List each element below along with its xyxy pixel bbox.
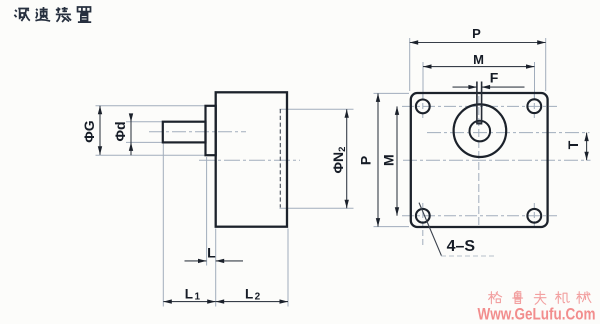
svg-text:Φd: Φd — [112, 121, 128, 141]
extension line N2 bottom — [280, 207, 354, 209]
extension line shaft bottom — [126, 141, 163, 143]
title 减速装置 — [14, 7, 91, 22]
svg-text:ΦG: ΦG — [81, 120, 97, 142]
svg-text:L: L — [207, 244, 216, 260]
bolt hole top-right — [527, 99, 541, 113]
bolt hole bottom-right — [527, 209, 541, 223]
hidden line spigot N2 — [279, 109, 281, 208]
svg-text:P: P — [472, 26, 481, 41]
dimension F — [453, 69, 525, 89]
svg-text:L2: L2 — [245, 286, 261, 302]
svg-text:M: M — [381, 154, 397, 166]
extension line boss bottom — [96, 154, 206, 156]
extension line boss top — [96, 105, 206, 107]
dimension M top — [423, 52, 535, 69]
centerline flange horizontal — [403, 159, 591, 161]
faint dash under 4-S — [441, 255, 495, 257]
centerline hole row bottom — [402, 215, 557, 217]
centerline body axis — [199, 159, 300, 161]
spigot circle — [454, 104, 507, 157]
dimension PhiG — [81, 106, 102, 155]
watermark 格鲁夫机械 — [489, 291, 591, 304]
centerline hole row top — [402, 105, 557, 107]
bolt hole bottom-left — [416, 209, 430, 223]
centerline hole column left — [422, 94, 424, 246]
dimension L1 — [163, 286, 215, 304]
svg-text:4–S: 4–S — [447, 238, 476, 255]
extension line M right — [534, 62, 536, 99]
centerline bore horizontal — [427, 132, 590, 134]
dimension L2 — [216, 286, 288, 304]
shaft — [163, 122, 206, 143]
extension line body left vertical — [215, 229, 217, 307]
extension line N2 top — [280, 108, 354, 110]
centerline shaft axis — [149, 131, 246, 133]
extension line P left — [409, 38, 411, 91]
centerline hole column right — [533, 94, 535, 230]
flange plate — [411, 93, 548, 227]
boss (bearing flange step) — [206, 106, 216, 155]
keyway slot — [476, 82, 482, 124]
body (gear housing side view) — [216, 92, 287, 226]
svg-text:L1: L1 — [185, 286, 201, 302]
bolt hole top-left — [416, 100, 430, 114]
svg-text:P: P — [358, 156, 374, 165]
dimension T — [565, 133, 589, 161]
extension line P-left bottom — [374, 226, 410, 228]
extension lines right view top — [374, 38, 546, 227]
dimension Phid — [112, 113, 133, 155]
svg-text:M: M — [473, 52, 484, 67]
extension line L left (boss face) — [206, 157, 208, 266]
dimension M left — [381, 106, 400, 215]
dimension P top — [410, 26, 546, 45]
centerline flange vertical — [478, 96, 480, 225]
svg-text:Www.GeLufu.Com: Www.GeLufu.Com — [478, 305, 596, 324]
extension line L1 left (shaft end) — [162, 144, 164, 307]
dimension P left — [358, 93, 381, 226]
extension line P right — [545, 38, 547, 91]
svg-text:T: T — [565, 140, 581, 149]
extension lines left view — [96, 106, 354, 307]
dimension PhiN2 — [330, 109, 349, 208]
svg-text:F: F — [490, 69, 499, 85]
extension line M left — [422, 62, 424, 99]
dimension L — [185, 244, 244, 263]
extension line P-left top — [374, 92, 410, 94]
leader 4-S — [419, 203, 442, 256]
extension line shaft top — [126, 121, 163, 123]
svg-text:ΦN2: ΦN2 — [330, 147, 348, 174]
bore circle — [470, 121, 491, 142]
extension line L2 right (body right) — [287, 229, 289, 307]
